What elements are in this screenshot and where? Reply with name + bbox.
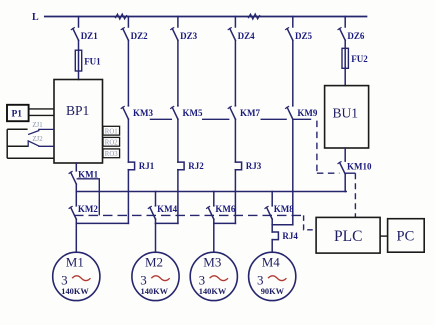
wire KM4 down <box>155 219 157 223</box>
wire break mark 2 <box>249 14 260 19</box>
contactor KM6 <box>207 206 214 219</box>
contactor KM5 <box>171 106 178 119</box>
contactor KM4 <box>148 206 155 219</box>
wire bus to KM8 <box>271 192 273 206</box>
svg-text:RO1: RO1 <box>105 128 118 135</box>
motor M3 <box>190 252 237 300</box>
interlock link KM7-KM9 <box>261 118 287 120</box>
wire KM2 down <box>75 219 77 223</box>
svg-text:KM5: KM5 <box>183 108 203 118</box>
svg-text:FU2: FU2 <box>351 54 368 64</box>
wire PLC to PC <box>380 235 388 237</box>
svg-text:M4: M4 <box>262 255 281 270</box>
svg-text:KM7: KM7 <box>240 108 260 118</box>
contactor KM8 <box>265 206 272 219</box>
breaker DZ2 <box>121 17 128 41</box>
wire P1 to BP1 lower <box>29 114 54 116</box>
svg-text:DZ4: DZ4 <box>238 31 256 41</box>
svg-text:RJ1: RJ1 <box>139 161 155 171</box>
contact ZJ1 <box>29 131 39 135</box>
relay output RO2 <box>103 137 120 146</box>
wire DZ to KM7 <box>234 40 236 106</box>
svg-text:3: 3 <box>199 272 206 287</box>
wire DZ to KM3 <box>127 40 129 106</box>
svg-text:ZJ2: ZJ2 <box>32 136 43 143</box>
PLC box <box>316 217 380 253</box>
svg-text:M1: M1 <box>66 255 84 270</box>
wire bus to KM4 <box>155 192 157 206</box>
svg-text:DZ6: DZ6 <box>347 31 365 41</box>
svg-text:140KW: 140KW <box>141 287 169 296</box>
wire BP1 to KM1 <box>75 163 77 171</box>
interlock link KM3-KM5 <box>150 118 172 120</box>
svg-text:RJ3: RJ3 <box>246 161 262 171</box>
motor M2 <box>132 252 179 300</box>
wire RJ2 down <box>177 170 179 224</box>
wire bus to KM6 <box>213 192 215 206</box>
breaker DZ1 <box>71 17 78 41</box>
wire motor feeder <box>75 223 77 252</box>
breaker DZ3 <box>171 17 178 41</box>
svg-text:KM8: KM8 <box>274 204 294 214</box>
wire BU1 to KM10 <box>344 148 346 161</box>
svg-text:DZ1: DZ1 <box>81 31 99 41</box>
wire RJ1 down <box>127 170 129 224</box>
svg-text:P1: P1 <box>12 110 23 120</box>
wire KM to RJ2 <box>177 119 179 162</box>
svg-text:KM9: KM9 <box>297 108 317 118</box>
svg-text:M3: M3 <box>203 255 221 270</box>
svg-text:3: 3 <box>140 272 147 287</box>
wire join M4 <box>272 224 293 226</box>
fuse FU2 <box>342 48 348 68</box>
contact ZJ2 <box>28 141 39 146</box>
wire ZJ2 to BP1 <box>39 145 54 147</box>
wire DZ6 to FU2 <box>344 40 346 85</box>
svg-text:KM4: KM4 <box>157 204 177 214</box>
thermal relay RJ3 <box>235 162 241 170</box>
wire KM to RJ3 <box>234 119 236 162</box>
wire join M3 <box>214 222 236 224</box>
motor M1 <box>53 252 100 300</box>
wire DZ to KM5 <box>177 40 179 106</box>
thermal relay RJ1 <box>128 162 134 170</box>
wire RJ4 to M4 <box>271 240 273 253</box>
svg-text:KM6: KM6 <box>215 204 235 214</box>
wire DZ1 to BP1 <box>78 40 80 79</box>
svg-text:140KW: 140KW <box>61 287 89 296</box>
interlock link to KM10 horizontal <box>317 172 340 174</box>
wire motor feeder <box>213 223 215 252</box>
relay output RO1 <box>103 126 120 135</box>
interlock line KM2-KM8 to PLC <box>74 214 304 216</box>
breaker DZ6 <box>338 17 345 41</box>
fuse FU1 <box>75 50 81 71</box>
svg-text:90KW: 90KW <box>261 287 285 296</box>
breaker DZ4 <box>228 17 235 41</box>
svg-text:DZ2: DZ2 <box>131 31 149 41</box>
svg-text:RJ4: RJ4 <box>282 231 298 241</box>
svg-text:KM3: KM3 <box>133 108 153 118</box>
interlock link KM5-KM7 <box>202 118 229 120</box>
inverter BP1 <box>54 80 103 164</box>
contactor KM10 <box>338 161 345 174</box>
svg-text:BU1: BU1 <box>333 106 359 121</box>
wire break mark 1 <box>116 14 127 19</box>
svg-text:RO2: RO2 <box>105 139 118 146</box>
wire KM to RJ1 <box>127 119 129 162</box>
interlock corner to PLC <box>304 215 317 229</box>
contactor KM3 <box>121 106 128 119</box>
wire KM8 to RJ4 <box>271 225 273 232</box>
PC box <box>388 219 425 253</box>
breaker DZ5 <box>286 17 293 41</box>
contactor KM1 <box>69 171 76 184</box>
wire L supply line <box>45 16 367 18</box>
svg-text:ZJ1: ZJ1 <box>32 122 42 129</box>
wire join M1 <box>76 222 128 224</box>
contactor KM9 <box>286 106 293 119</box>
wire P1 to BP1 upper <box>29 108 54 110</box>
svg-text:DZ5: DZ5 <box>295 31 313 41</box>
link KM1 to interlock <box>77 179 100 216</box>
contactor KM7 <box>228 106 235 119</box>
wire KM8 down <box>271 219 273 225</box>
thermal relay RJ2 <box>178 162 184 170</box>
wire inverter output bus <box>76 191 346 193</box>
wire DZ to KM9 <box>292 40 294 106</box>
wire KM1 to bus <box>75 184 77 206</box>
wire KM10 to bus <box>344 174 346 192</box>
thermal relay RJ4 <box>272 232 278 240</box>
svg-text:L: L <box>32 12 39 23</box>
controller P1 <box>7 105 29 121</box>
wire KM9 down <box>292 119 294 225</box>
wire join M2 <box>156 222 178 224</box>
link KM10 to PLC line <box>345 172 355 174</box>
brake unit BU1 <box>325 86 369 148</box>
svg-text:DZ3: DZ3 <box>180 31 198 41</box>
control line PLC to KM10 <box>354 173 356 217</box>
svg-text:BP1: BP1 <box>66 103 89 118</box>
wire KM6 down <box>213 219 215 223</box>
svg-text:3: 3 <box>257 272 264 287</box>
wire RJ3 down <box>234 170 236 224</box>
svg-text:PC: PC <box>397 229 415 245</box>
svg-text:KM10: KM10 <box>347 161 372 171</box>
svg-text:RJ2: RJ2 <box>188 161 204 171</box>
svg-text:KM2: KM2 <box>78 204 98 214</box>
svg-text:M2: M2 <box>145 255 163 270</box>
contactor KM2 <box>69 206 76 219</box>
interlock link KM9 right <box>294 118 312 120</box>
wire motor feeder <box>155 223 157 252</box>
motor M4 <box>249 252 296 300</box>
svg-text:PLC: PLC <box>334 228 362 245</box>
wire left bus vertical <box>7 129 54 158</box>
svg-text:3: 3 <box>61 272 68 287</box>
relay output RO3 <box>103 149 120 158</box>
svg-text:RO3: RO3 <box>105 151 118 158</box>
wire ZJ1 to BP1 <box>39 128 54 130</box>
svg-text:FU1: FU1 <box>84 56 101 66</box>
interlock link to KM10 vertical <box>316 121 318 174</box>
svg-text:140KW: 140KW <box>199 287 227 296</box>
